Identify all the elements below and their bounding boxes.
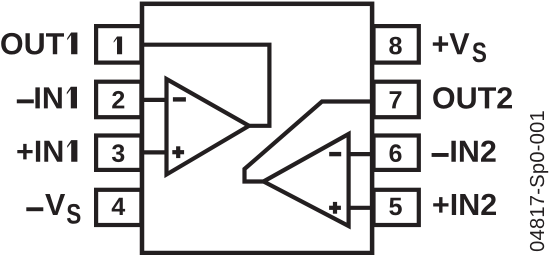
pin 2 box bbox=[96, 82, 141, 118]
figure number 04817-Sp0-001 bbox=[530, 111, 548, 251]
op-amp A1 non-inverting input marker bbox=[172, 146, 184, 158]
label OUT1 (pin 1) bbox=[1, 33, 77, 55]
pin 8 box bbox=[374, 26, 419, 63]
op-amp A1 inverting input marker bbox=[173, 97, 186, 101]
IC package U1 body bbox=[142, 4, 372, 253]
label +IN2 (pin 5) bbox=[433, 194, 496, 215]
wire pin 6 to A2 inverting input bbox=[349, 152, 371, 156]
label +VS (pin 8) bbox=[433, 33, 470, 54]
wire pin 5 to A2 non-inverting input bbox=[349, 206, 371, 210]
pin 1 number bbox=[114, 37, 122, 55]
wire A1 output to pin 1 bbox=[143, 45, 269, 126]
op-amp A2 non-inverting input marker bbox=[329, 202, 341, 214]
op-amp A1 bbox=[167, 79, 250, 175]
label +IN1 (pin 3) bbox=[17, 140, 77, 162]
pin 2 number bbox=[112, 91, 124, 109]
pin 1 box bbox=[96, 26, 141, 63]
label OUT2 (pin 7) bbox=[433, 87, 512, 109]
pin 5 box bbox=[374, 190, 419, 225]
pin 6 number bbox=[390, 144, 402, 162]
pin 7 number bbox=[390, 91, 402, 108]
wire pin 2 to A1 inverting input bbox=[143, 98, 166, 102]
pin 7 box bbox=[374, 82, 419, 118]
op-amp A2 inverting input marker bbox=[329, 152, 341, 156]
pin 4 box bbox=[96, 190, 141, 225]
op-amp A2 bbox=[264, 134, 349, 226]
label -VS (pin 4) bbox=[26, 207, 43, 211]
wire A2 output to pin 7 bbox=[245, 102, 372, 182]
label -IN2 (pin 6) bbox=[432, 153, 449, 157]
pin 8 number bbox=[389, 37, 401, 55]
pin 6 box bbox=[374, 136, 419, 170]
wire pin 3 to A1 non-inverting input bbox=[143, 150, 166, 154]
pin 3 number bbox=[112, 144, 124, 162]
label -IN1 (pin 2) bbox=[17, 99, 34, 103]
pin 4 number bbox=[112, 198, 125, 215]
pin 5 number bbox=[389, 198, 402, 215]
pin 3 box bbox=[96, 136, 141, 170]
